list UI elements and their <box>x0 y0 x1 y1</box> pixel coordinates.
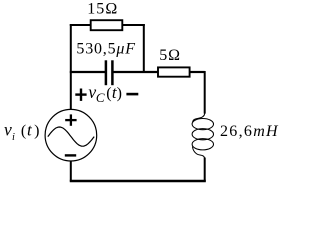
inductor 26,6mH loop 3 <box>192 139 213 150</box>
wire: right vertical down to inductor <box>204 71 206 114</box>
svg-text:vi(t): vi(t) <box>4 119 39 143</box>
wire: right vertical of parallel loop <box>143 24 145 73</box>
node: polarity plus of vC <box>75 89 86 101</box>
svg-text:26,6mH: 26,6mH <box>220 123 279 140</box>
inductor 26,6mH bottom hook <box>193 147 205 159</box>
wire: right vertical from inductor to bottom rail <box>204 158 206 182</box>
wire: left vertical from source bottom to bottom rail <box>70 161 72 182</box>
source vi(t): circle <box>45 109 97 161</box>
resistor 5Ω (box) <box>158 67 190 76</box>
capacitor 530,5µF left plate <box>105 60 108 85</box>
wire: middle horizontal, 5Ω to right corner <box>190 71 205 73</box>
inductor 26,6mH loop 2 <box>192 129 213 140</box>
source vi(t): sine wave <box>48 127 94 146</box>
source vi(t): plus sign <box>65 114 76 125</box>
inductor 26,6mH loop 1 <box>192 119 213 130</box>
wire: top rail right segment <box>123 24 145 26</box>
wire: middle horizontal, capacitor to 5Ω resistor <box>113 71 157 73</box>
svg-text:530,5μF: 530,5μF <box>76 40 135 57</box>
node: polarity minus of vC <box>126 93 138 96</box>
resistor 15Ω (box) <box>91 20 123 30</box>
wire: middle horizontal, left of capacitor <box>70 71 105 73</box>
svg-text:15Ω: 15Ω <box>87 1 118 18</box>
svg-text:vC(t): vC(t) <box>88 82 122 105</box>
svg-text:5Ω: 5Ω <box>159 47 181 64</box>
capacitor 530,5µF right plate <box>111 60 114 85</box>
wire: top rail left segment <box>70 24 91 26</box>
wire: bottom rail <box>70 180 206 183</box>
inductor 26,6mH top hook <box>193 113 205 122</box>
wire: left vertical (top rail down to source) <box>70 24 72 110</box>
source vi(t): minus sign <box>65 154 76 156</box>
